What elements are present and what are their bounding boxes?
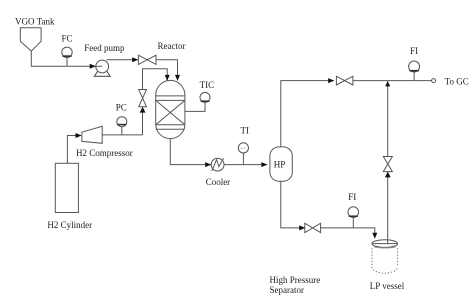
svg-text:Feed pump: Feed pump [84, 43, 125, 53]
svg-text:TIC: TIC [200, 80, 215, 90]
svg-text:FC: FC [62, 34, 73, 44]
svg-text:H2 Cylinder: H2 Cylinder [47, 220, 92, 230]
svg-text:PC: PC [116, 103, 127, 113]
svg-text:Reactor: Reactor [158, 41, 186, 51]
svg-text:High Pressure: High Pressure [270, 275, 321, 285]
svg-text:VGO Tank: VGO Tank [15, 16, 55, 26]
svg-text:FI: FI [410, 46, 418, 56]
svg-text:TI: TI [241, 126, 250, 136]
svg-text:FI: FI [348, 192, 356, 202]
svg-text:H2 Compressor: H2 Compressor [76, 148, 133, 158]
svg-text:HP: HP [274, 160, 286, 170]
svg-text:LP vessel: LP vessel [370, 281, 405, 291]
svg-text:Separator: Separator [270, 285, 304, 295]
svg-text:To GC: To GC [445, 76, 469, 86]
svg-text:Cooler: Cooler [206, 177, 231, 187]
